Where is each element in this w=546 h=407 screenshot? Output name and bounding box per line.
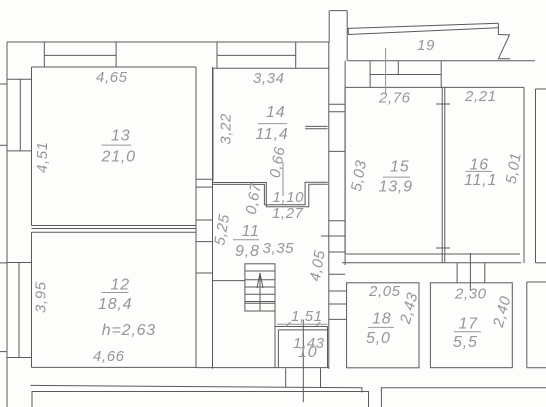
door mark room 14 right wall: [305, 126, 327, 128]
svg-text:5,01: 5,01: [503, 151, 525, 185]
svg-text:2,05: 2,05: [368, 283, 401, 300]
far right upper partial room: [536, 89, 546, 263]
top wall chunk: [330, 11, 348, 61]
svg-text:5,0: 5,0: [366, 330, 391, 347]
window band between 19 and room 15: [370, 61, 441, 87]
dimension leaders (lighter): [277, 48, 386, 327]
room 12 walls: [32, 232, 197, 367]
svg-text:3,35: 3,35: [263, 240, 295, 257]
rooms 15/16 box: [345, 87, 524, 263]
hatch ticks central wall: [321, 104, 347, 319]
room 14 walls: [213, 68, 329, 180]
svg-text:12: 12: [111, 277, 130, 294]
svg-text:4,66: 4,66: [93, 348, 125, 365]
leader 0,66/1,10: [282, 162, 284, 196]
svg-text:15: 15: [390, 159, 409, 176]
svg-text:9,8: 9,8: [235, 243, 260, 260]
svg-text:2,76: 2,76: [378, 90, 411, 107]
svg-text:13: 13: [111, 128, 130, 145]
svg-text:19: 19: [417, 37, 435, 54]
top band separator: [216, 42, 218, 68]
wall cap bottom-left: [6, 357, 32, 359]
stair wall down: [274, 311, 276, 368]
wall between rooms 13-12 and middle column: [196, 67, 213, 369]
svg-text:3,95: 3,95: [33, 281, 50, 313]
svg-text:5,5: 5,5: [453, 334, 478, 351]
lower floor boxes: [32, 388, 546, 407]
svg-text:1,10: 1,10: [273, 189, 305, 206]
svg-text:14: 14: [266, 104, 285, 121]
svg-text:18,4: 18,4: [98, 296, 132, 313]
balcony 19: [348, 23, 535, 60]
window left wall room 13: [7, 79, 32, 151]
svg-text:0,67: 0,67: [243, 182, 265, 216]
svg-text:11,4: 11,4: [255, 126, 288, 143]
room 14 bottom wall with notch: [213, 182, 328, 207]
landing line to stairs: [213, 280, 245, 282]
svg-text:4,05: 4,05: [307, 249, 329, 283]
central wall right line: [344, 61, 346, 265]
far right lower partial room: [527, 282, 546, 368]
window above room 14: [217, 42, 296, 68]
svg-text:1,27: 1,27: [272, 205, 304, 222]
room 18 box: [347, 283, 419, 368]
long bottom line: [31, 385, 362, 392]
room 17 box: [430, 283, 512, 368]
leader 2,76: [385, 48, 387, 93]
room 13 walls: [32, 67, 197, 226]
svg-text:17: 17: [459, 316, 479, 333]
outer left wall: [6, 42, 8, 407]
break mark: [498, 23, 510, 58]
bottom ducts below room 10: [286, 320, 321, 403]
dimension line 1,51: [277, 323, 328, 325]
svg-text:2,30: 2,30: [454, 285, 487, 302]
svg-text:11,1: 11,1: [464, 172, 497, 189]
svg-text:2,21: 2,21: [464, 88, 497, 105]
left edge exterior ticks: [0, 84, 7, 352]
stairs: [245, 264, 275, 311]
svg-text:h=2,63: h=2,63: [102, 322, 156, 339]
svg-text:5,03: 5,03: [348, 159, 370, 193]
central wall left line: [328, 11, 330, 42]
svg-text:1,51: 1,51: [291, 308, 323, 325]
svg-text:3,22: 3,22: [217, 113, 234, 145]
svg-text:4,65: 4,65: [96, 69, 128, 86]
svg-text:18: 18: [372, 311, 391, 328]
top outer wall line: [7, 41, 330, 43]
wall band below rooms 15/16: [342, 253, 546, 291]
window above room 13: [44, 42, 116, 67]
room 11 bottom wall: [196, 367, 329, 369]
separator wall rooms 15/16: [436, 87, 450, 262]
svg-text:5,25: 5,25: [211, 213, 233, 247]
svg-text:11: 11: [242, 223, 260, 240]
svg-text:2,40: 2,40: [490, 294, 515, 330]
svg-text:3,34: 3,34: [253, 70, 285, 87]
wall divider rooms 13/12: [32, 226, 197, 233]
room 10: [275, 327, 328, 368]
svg-text:10: 10: [298, 344, 317, 361]
svg-text:4,51: 4,51: [34, 141, 51, 173]
svg-text:0,66: 0,66: [267, 145, 289, 179]
svg-text:13,9: 13,9: [379, 179, 413, 196]
window left wall room 12: [7, 263, 32, 358]
svg-text:21,0: 21,0: [101, 149, 136, 166]
